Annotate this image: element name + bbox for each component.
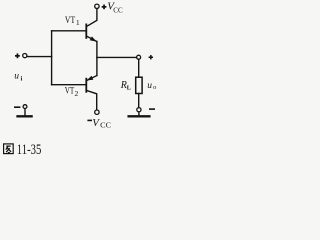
transistor VT1 base bar [85,24,87,38]
svg-text:1: 1 [76,18,80,27]
transistor VT1 emitter arrow [90,36,97,41]
minus label input [15,106,20,108]
+Vcc terminal circle [95,4,99,8]
input terminal plus label [15,53,20,58]
plus label output [149,55,153,59]
input + terminal circle [23,54,27,58]
svg-text:i: i [21,75,23,82]
output node circle [137,55,141,59]
minus label output [150,108,154,110]
svg-text:u: u [14,72,19,82]
transistor VT2 emitter arrow [87,76,94,81]
svg-text:CC: CC [100,121,111,130]
transistor VT1 collector [87,9,97,27]
wire: output node to resistor [138,59,140,77]
wire: terminal to ground right [138,112,140,115]
label +Vcc plus [102,5,107,10]
svg-text:11-35: 11-35 [17,142,42,158]
wire: terminal to ground left [24,109,26,116]
ground left [18,115,32,117]
svg-text:VT: VT [65,15,75,26]
transistor VT2 collector [87,91,97,110]
svg-text:u: u [147,81,152,91]
svg-text:CC: CC [113,6,122,15]
output lower terminal circle [137,108,141,112]
svg-text:2: 2 [75,89,79,98]
wire: VT1 base [52,30,86,32]
resistor RL body [136,77,142,93]
label -Vcc minus [87,119,92,121]
wire: input to base splitter [27,56,51,58]
wire: VT2 base [52,84,86,86]
ground right [129,115,150,117]
svg-text:L: L [127,85,132,92]
transistor VT2 base bar [85,79,87,92]
wire: emitters junction vertical [96,42,98,76]
wire: output horizontal [97,56,137,58]
svg-text:VT: VT [65,86,75,97]
svg-text:o: o [153,84,156,91]
wire: resistor to lower terminal [138,94,140,108]
caption figure number: hanzi tu drawn as strokes [4,144,14,154]
input lower - terminal circle [23,105,27,109]
transistor VT1 emitter [87,36,97,41]
-Vcc terminal circle [95,110,99,114]
wire: base splitter vertical [51,31,53,85]
transistor VT2 emitter [87,76,97,81]
